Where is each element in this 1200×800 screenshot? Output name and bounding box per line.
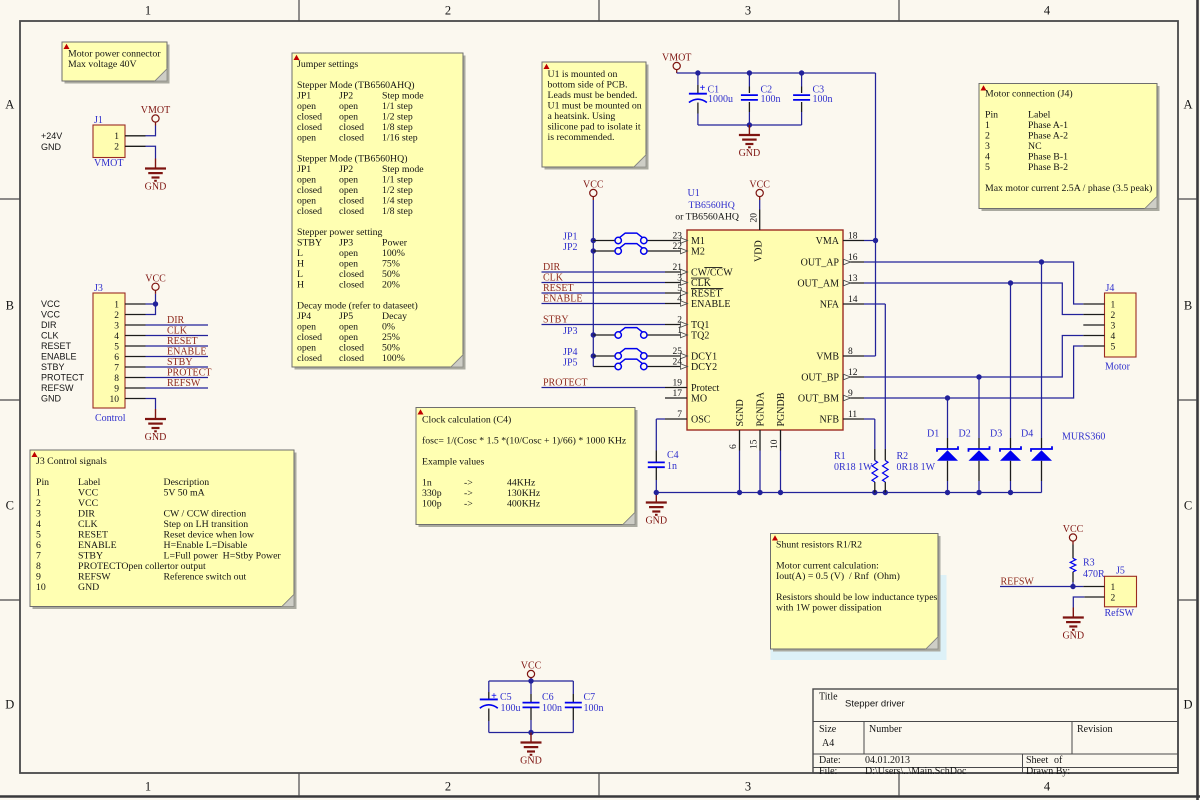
svg-text:PROTECT: PROTECT [543, 378, 587, 389]
svg-text:CLK: CLK [691, 278, 712, 289]
diode D2 [959, 377, 990, 493]
svg-text:->: -> [464, 478, 473, 489]
svg-text:Step mode: Step mode [382, 164, 424, 175]
svg-text:7: 7 [36, 551, 41, 562]
svg-text:Revision: Revision [1077, 724, 1113, 735]
svg-text:Phase A-1: Phase A-1 [1028, 120, 1068, 131]
svg-text:Motor current calculation:: Motor current calculation: [776, 561, 879, 572]
svg-text:JP3: JP3 [339, 238, 353, 249]
svg-text:100n: 100n [584, 703, 604, 714]
wire C5-C7 top rail [489, 678, 574, 683]
svg-text:open: open [339, 101, 358, 112]
svg-text:Stepper Mode (TB6560HQ): Stepper Mode (TB6560HQ) [297, 154, 407, 165]
svg-text:2: 2 [36, 498, 41, 509]
svg-text:PROTECTOpen collertor output: PROTECTOpen collertor output [78, 561, 206, 572]
svg-text:closed: closed [297, 185, 322, 196]
svg-text:closed: closed [297, 112, 322, 123]
svg-text:7: 7 [114, 363, 119, 373]
svg-text:6: 6 [114, 353, 119, 363]
svg-text:B: B [6, 299, 14, 313]
svg-text:VMOT: VMOT [662, 53, 691, 64]
svg-text:Jumper settings: Jumper settings [297, 59, 358, 70]
svg-text:1n: 1n [667, 461, 677, 472]
svg-text:Motor power connector: Motor power connector [68, 49, 161, 60]
svg-text:100%: 100% [382, 353, 405, 364]
svg-text:D3: D3 [990, 429, 1002, 440]
svg-text:CLK: CLK [41, 331, 59, 341]
svg-text:GND: GND [78, 582, 99, 593]
svg-text:RESET: RESET [167, 336, 198, 347]
svg-text:2: 2 [1111, 311, 1116, 321]
svg-text:CLK: CLK [167, 326, 188, 337]
capacitor C3 [793, 73, 832, 125]
svg-text:Example values: Example values [422, 457, 484, 468]
svg-text:Phase A-2: Phase A-2 [1028, 131, 1068, 142]
label GND [41, 142, 62, 152]
svg-text:JP1: JP1 [297, 164, 311, 175]
wire VMOT rail [677, 70, 876, 75]
svg-text:C: C [6, 499, 14, 513]
label +24V [41, 131, 62, 141]
svg-text:Control: Control [95, 413, 126, 424]
svg-text:VMB: VMB [816, 351, 839, 362]
svg-text:closed: closed [297, 353, 322, 364]
svg-text:DIR: DIR [41, 320, 57, 330]
svg-text:VMOT: VMOT [94, 158, 123, 169]
svg-text:15: 15 [750, 439, 760, 449]
resistor R2 [883, 449, 936, 493]
ground (C5-C7) [520, 733, 542, 767]
svg-text:VCC: VCC [78, 488, 98, 499]
svg-text:2: 2 [114, 311, 119, 321]
svg-text:4: 4 [1111, 332, 1116, 342]
labels J3 port names [41, 299, 85, 404]
svg-text:MURS360: MURS360 [1062, 432, 1105, 443]
svg-text:bottom side of PCB.: bottom side of PCB. [548, 80, 628, 91]
svg-text:A4: A4 [822, 738, 834, 749]
svg-text:H: H [297, 259, 304, 270]
svg-text:OUT_BM: OUT_BM [798, 393, 839, 404]
svg-text:VCC: VCC [583, 180, 604, 191]
svg-text:closed: closed [339, 343, 364, 354]
svg-text:CW / CCW direction: CW / CCW direction [164, 509, 247, 520]
svg-text:PGNDB: PGNDB [776, 392, 787, 426]
svg-text:a heatsink. Using: a heatsink. Using [548, 111, 616, 122]
svg-text:130KHz: 130KHz [507, 488, 541, 499]
svg-text:5V 50 mA: 5V 50 mA [164, 488, 205, 499]
svg-text:VCC: VCC [521, 661, 542, 672]
wire REFSW node [1000, 576, 1083, 589]
resistor R3 [1070, 545, 1105, 587]
svg-text:0%: 0% [382, 322, 395, 333]
svg-text:VCC: VCC [41, 310, 61, 320]
svg-text:1/8 step: 1/8 step [382, 206, 413, 217]
svg-text:L=Full power H=Stby Power: L=Full power H=Stby Power [164, 551, 282, 562]
svg-text:1: 1 [1111, 300, 1116, 310]
svg-text:GND: GND [1062, 631, 1084, 642]
svg-text:PROTECT: PROTECT [41, 373, 85, 383]
svg-text:5: 5 [36, 530, 41, 541]
svg-text:Drawn By:: Drawn By: [1026, 766, 1070, 777]
svg-text:Pin: Pin [985, 110, 998, 121]
svg-text:GND: GND [145, 182, 167, 193]
svg-text:A: A [1183, 98, 1192, 112]
note: J3 control signals [30, 450, 297, 609]
svg-text:closed: closed [297, 332, 322, 343]
svg-text:TQ2: TQ2 [691, 330, 709, 341]
svg-text:GND: GND [520, 756, 542, 767]
svg-text:Step on LH transition: Step on LH transition [164, 519, 249, 530]
svg-text:J3: J3 [94, 283, 103, 294]
svg-text:R2: R2 [897, 451, 909, 462]
svg-text:H: H [297, 280, 304, 291]
svg-text:20: 20 [750, 213, 760, 223]
svg-text:VMOT: VMOT [141, 105, 170, 116]
svg-text:NC: NC [1028, 141, 1042, 152]
svg-text:1: 1 [145, 780, 151, 794]
svg-text:D: D [1183, 698, 1192, 712]
svg-text:U1: U1 [688, 188, 700, 199]
svg-text:9: 9 [36, 572, 41, 583]
svg-text:C6: C6 [542, 692, 554, 703]
power port VMOT (top) [662, 53, 691, 73]
svg-text:closed: closed [339, 196, 364, 207]
svg-text:+24V: +24V [41, 131, 62, 141]
svg-text:1/4 step: 1/4 step [382, 196, 413, 207]
svg-text:9: 9 [114, 384, 119, 394]
svg-text:open: open [297, 175, 316, 186]
svg-text:VCC: VCC [1063, 524, 1084, 535]
svg-text:TB6560HQ: TB6560HQ [689, 200, 735, 211]
svg-text:75%: 75% [382, 259, 400, 270]
svg-text:RESET: RESET [543, 283, 574, 294]
jumper JP1 [563, 231, 665, 243]
svg-text:J4: J4 [1106, 283, 1115, 294]
svg-text:100%: 100% [382, 248, 405, 259]
svg-text:J5: J5 [1116, 566, 1125, 577]
svg-text:1/1 step: 1/1 step [382, 175, 413, 186]
svg-text:3: 3 [114, 321, 119, 331]
svg-text:1/16 step: 1/16 step [382, 133, 418, 144]
svg-text:CLK: CLK [78, 519, 98, 530]
svg-text:10: 10 [770, 439, 780, 449]
svg-text:JP2: JP2 [339, 164, 353, 175]
svg-text:1: 1 [114, 300, 119, 310]
svg-text:Number: Number [869, 724, 902, 735]
wire J1.1 to VMOT [146, 126, 156, 136]
svg-text:MO: MO [691, 393, 707, 404]
svg-text:TQ1: TQ1 [691, 320, 709, 331]
svg-text:3: 3 [745, 4, 751, 18]
svg-text:Iout(A) = 0.5 (V) / Rnf (Ohm: Iout(A) = 0.5 (V) / Rnf (Ohm) [776, 571, 900, 582]
svg-text:Stepper Mode (TB6560AHQ): Stepper Mode (TB6560AHQ) [297, 80, 415, 91]
svg-text:1/2 step: 1/2 step [382, 185, 413, 196]
svg-text:RefSW: RefSW [1105, 608, 1135, 619]
svg-text:or TB6560AHQ: or TB6560AHQ [675, 212, 739, 223]
svg-text:330p: 330p [422, 488, 442, 499]
svg-text:ENABLE: ENABLE [543, 294, 582, 305]
svg-text:0R18 1W: 0R18 1W [834, 462, 873, 473]
svg-text:JP2: JP2 [339, 91, 353, 102]
ground (C1-C3) [739, 125, 761, 159]
wire VCC to U1 pin 20 [759, 200, 761, 210]
svg-text:14: 14 [848, 295, 858, 305]
svg-text:18: 18 [848, 232, 858, 242]
wire J3.1/J3.2 to VCC [146, 294, 159, 315]
svg-text:1/8 step: 1/8 step [382, 122, 413, 133]
svg-text:4: 4 [1044, 780, 1051, 794]
svg-text:VCC: VCC [145, 274, 166, 285]
svg-text:1n: 1n [422, 478, 432, 489]
svg-text:100u: 100u [501, 703, 521, 714]
svg-text:1000u: 1000u [708, 94, 733, 105]
wire OUT_AM to J4.2 [864, 280, 1083, 314]
svg-text:silicone pad to isolate it: silicone pad to isolate it [548, 122, 641, 133]
connector J5 [1083, 566, 1136, 620]
svg-text:J3 Control signals: J3 Control signals [36, 456, 107, 467]
svg-text:VMA: VMA [816, 236, 840, 247]
svg-text:Motor connection (J4): Motor connection (J4) [985, 89, 1073, 100]
svg-text:with 1W power dissipation: with 1W power dissipation [776, 603, 882, 614]
svg-text:100n: 100n [813, 94, 833, 105]
svg-text:REFSW: REFSW [41, 383, 74, 393]
ground (J1) [145, 159, 167, 193]
capacitor C2 [741, 73, 781, 125]
svg-text:RESET: RESET [41, 341, 72, 351]
svg-text:44KHz: 44KHz [507, 478, 536, 489]
svg-text:closed: closed [339, 353, 364, 364]
ground (J5) [1062, 608, 1084, 642]
svg-text:R1: R1 [834, 451, 846, 462]
svg-text:closed: closed [339, 122, 364, 133]
ground (J3) [145, 409, 167, 443]
svg-text:Phase B-1: Phase B-1 [1028, 152, 1068, 163]
diode D1 [927, 398, 958, 493]
svg-text:3: 3 [985, 141, 990, 152]
svg-text:VCC: VCC [78, 498, 98, 509]
svg-text:closed: closed [297, 206, 322, 217]
svg-text:8: 8 [848, 347, 853, 357]
svg-text:Protect: Protect [691, 383, 720, 394]
power port VMOT (J1) [141, 105, 170, 125]
capacitor C4 [648, 450, 679, 493]
svg-text:open: open [339, 248, 358, 259]
note: U1 mounting [542, 62, 649, 170]
svg-text:closed: closed [339, 206, 364, 217]
wire J1.2 to GND [146, 146, 156, 158]
svg-text:6: 6 [36, 540, 41, 551]
svg-text:OUT_AP: OUT_AP [801, 257, 840, 268]
svg-text:C7: C7 [584, 692, 596, 703]
svg-text:closed: closed [339, 133, 364, 144]
svg-text:DIR: DIR [543, 262, 561, 273]
capacitor C1 [689, 73, 733, 125]
svg-text:4: 4 [1044, 4, 1051, 18]
svg-text:CW/CCW: CW/CCW [691, 267, 733, 278]
svg-text:is recommended.: is recommended. [548, 132, 615, 143]
jumper JP2 [563, 242, 665, 254]
note: motor power connector [62, 42, 170, 84]
svg-text:OUT_BP: OUT_BP [801, 372, 839, 383]
svg-text:Max voltage 40V: Max voltage 40V [68, 59, 137, 70]
svg-text:Shunt resistors R1/R2: Shunt resistors R1/R2 [776, 540, 862, 551]
power port VCC (C5-C7) [521, 661, 542, 681]
svg-text:Leads must be bended.: Leads must be bended. [548, 90, 638, 101]
svg-text:STBY: STBY [41, 362, 65, 372]
svg-text:STBY: STBY [78, 551, 103, 562]
svg-text:3: 3 [745, 780, 751, 794]
svg-text:H=Enable L=Disable: H=Enable L=Disable [164, 540, 248, 551]
svg-text:17: 17 [673, 389, 683, 399]
capacitor C5 [480, 681, 521, 733]
svg-text:2: 2 [445, 4, 451, 18]
svg-text:5: 5 [114, 342, 119, 352]
svg-text:Size: Size [819, 724, 837, 735]
svg-text:D:\Users\..\Main.SchDoc: D:\Users\..\Main.SchDoc [865, 766, 967, 777]
svg-text:5: 5 [1111, 342, 1116, 352]
note: shunt resistors R1/R2 [771, 534, 947, 661]
power port VCC (jumpers) [583, 180, 604, 200]
svg-text:C: C [1184, 499, 1192, 513]
svg-text:A: A [5, 98, 14, 112]
power port VCC (R3) [1063, 524, 1084, 544]
svg-text:1: 1 [1111, 583, 1116, 593]
svg-text:STBY: STBY [543, 315, 569, 326]
svg-text:50%: 50% [382, 343, 400, 354]
svg-text:NFB: NFB [820, 414, 840, 425]
svg-text:D1: D1 [927, 429, 939, 440]
wire NFB to R1 [864, 419, 875, 449]
svg-text:closed: closed [339, 280, 364, 291]
svg-text:4: 4 [985, 152, 990, 163]
svg-text:RESET: RESET [78, 530, 108, 541]
svg-text:open: open [339, 259, 358, 270]
svg-text:1: 1 [145, 4, 151, 18]
svg-text:Description: Description [164, 477, 210, 488]
svg-text:SGND: SGND [735, 399, 746, 426]
svg-text:100n: 100n [761, 94, 781, 105]
svg-text:->: -> [464, 488, 473, 499]
svg-text:STBY: STBY [297, 238, 322, 249]
svg-text:PGNDA: PGNDA [756, 391, 767, 426]
svg-text:11: 11 [848, 410, 857, 420]
svg-text:Motor: Motor [1105, 362, 1131, 373]
wires with net labels DIR CLK RESET ENABLE STBY PROTECT (U1 side) [542, 262, 666, 389]
svg-text:400KHz: 400KHz [507, 499, 541, 510]
jumper JP5 [563, 357, 665, 369]
wire C5-C7 bottom rail [489, 730, 574, 735]
svg-text:REFSW: REFSW [1001, 576, 1035, 587]
svg-text:open: open [297, 322, 316, 333]
svg-text:JP4: JP4 [297, 311, 311, 322]
connector J3 [93, 283, 146, 424]
wire VMOT to VMA/VMB [864, 73, 878, 356]
svg-text:6: 6 [729, 444, 739, 449]
svg-text:GND: GND [739, 148, 761, 159]
svg-text:4: 4 [36, 519, 41, 530]
svg-text:REFSW: REFSW [78, 572, 111, 583]
connector J4 [1083, 283, 1136, 373]
svg-text:2: 2 [1111, 594, 1116, 604]
svg-text:7: 7 [677, 410, 682, 420]
svg-text:R3: R3 [1083, 558, 1095, 569]
svg-text:Reference switch out: Reference switch out [164, 572, 247, 583]
svg-text:open: open [339, 112, 358, 123]
diode D3 [990, 283, 1021, 493]
svg-text:JP2: JP2 [563, 242, 577, 253]
capacitor C7 [565, 681, 604, 733]
svg-text:Reset device when low: Reset device when low [164, 530, 256, 541]
svg-text:open: open [297, 133, 316, 144]
diode D4 [1021, 262, 1052, 493]
wire J5.2 to GND [1073, 597, 1084, 608]
svg-text:DIR: DIR [78, 509, 95, 520]
svg-text:1/1 step: 1/1 step [382, 101, 413, 112]
svg-text:10: 10 [110, 395, 120, 405]
svg-text:D2: D2 [959, 429, 971, 440]
svg-text:OSC: OSC [691, 414, 711, 425]
svg-text:1: 1 [985, 120, 990, 131]
note: motor connection J4 [979, 84, 1160, 212]
note: jumper settings [292, 53, 466, 370]
svg-text:open: open [297, 196, 316, 207]
svg-text:open: open [339, 185, 358, 196]
svg-text:RESET: RESET [691, 288, 722, 299]
svg-text:ENABLE: ENABLE [78, 540, 117, 551]
wire NFA to R2 [864, 304, 885, 449]
svg-text:C5: C5 [500, 692, 512, 703]
svg-text:M1: M1 [691, 236, 705, 247]
svg-text:PROTECT: PROTECT [167, 368, 211, 379]
svg-text:open: open [297, 343, 316, 354]
svg-text:VCC: VCC [41, 299, 61, 309]
svg-text:U1 is mounted on: U1 is mounted on [548, 69, 618, 80]
svg-text:NFA: NFA [820, 299, 840, 310]
svg-text:VDD: VDD [754, 240, 765, 262]
svg-text:of: of [1054, 755, 1063, 766]
svg-text:fosc= 1/(Cosc * 1.5 *(10/Cosc: fosc= 1/(Cosc * 1.5 *(10/Cosc + 1)/66) *… [422, 436, 627, 447]
wire J3.10 to GND [146, 399, 156, 410]
op-amp U1 body (TB6560HQ) [675, 188, 843, 430]
svg-text:470R: 470R [1083, 569, 1105, 580]
ground (C4/U1) [645, 493, 667, 527]
U1 left pins [665, 232, 733, 426]
svg-text:100p: 100p [422, 499, 442, 510]
U1 pin 20 VDD [750, 210, 765, 263]
wire OSC to C4 [656, 419, 665, 451]
svg-text:8: 8 [36, 561, 41, 572]
svg-text:C4: C4 [667, 450, 679, 461]
svg-text:GND: GND [145, 432, 167, 443]
power port VCC (U1) [749, 180, 770, 200]
svg-text:Stepper driver: Stepper driver [845, 699, 905, 710]
svg-text:2: 2 [114, 143, 119, 153]
svg-text:20%: 20% [382, 280, 400, 291]
svg-text:Stepper power setting: Stepper power setting [297, 227, 383, 238]
svg-text:JP5: JP5 [339, 311, 353, 322]
svg-text:2: 2 [445, 780, 451, 794]
svg-text:Max motor current 2.5A / phase: Max motor current 2.5A / phase (3.5 peak… [985, 183, 1152, 194]
svg-text:Label: Label [78, 477, 101, 488]
svg-text:JP3: JP3 [563, 326, 577, 337]
svg-text:open: open [297, 101, 316, 112]
svg-text:M2: M2 [691, 246, 705, 257]
svg-text:Sheet: Sheet [1026, 755, 1048, 766]
svg-text:JP4: JP4 [563, 347, 577, 358]
wire OUT_BP to J4.4 [864, 336, 1083, 380]
svg-text:open: open [339, 322, 358, 333]
wire ground rail [654, 490, 1042, 495]
